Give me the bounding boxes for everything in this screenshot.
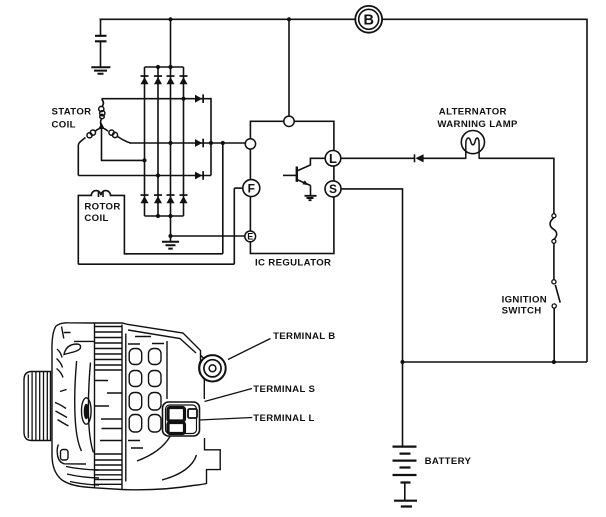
svg-text:ALTERNATOR: ALTERNATOR <box>439 107 507 118</box>
svg-text:S: S <box>329 182 337 196</box>
svg-text:COIL: COIL <box>52 119 76 130</box>
svg-text:STATOR: STATOR <box>52 107 92 118</box>
svg-text:IGNITION: IGNITION <box>502 295 547 306</box>
svg-text:TERMINAL S: TERMINAL S <box>253 384 315 395</box>
svg-text:COIL: COIL <box>84 213 108 224</box>
svg-text:WARNING LAMP: WARNING LAMP <box>437 119 518 130</box>
svg-text:SWITCH: SWITCH <box>502 306 542 317</box>
svg-text:L: L <box>329 151 337 166</box>
svg-text:BATTERY: BATTERY <box>425 456 472 467</box>
svg-text:F: F <box>248 181 255 195</box>
svg-text:TERMINAL L: TERMINAL L <box>253 413 314 424</box>
svg-text:E: E <box>247 232 253 242</box>
svg-text:ROTOR: ROTOR <box>84 202 120 213</box>
svg-text:TERMINAL B: TERMINAL B <box>273 331 335 342</box>
svg-text:IC REGULATOR: IC REGULATOR <box>255 257 331 268</box>
svg-text:B: B <box>363 13 373 29</box>
